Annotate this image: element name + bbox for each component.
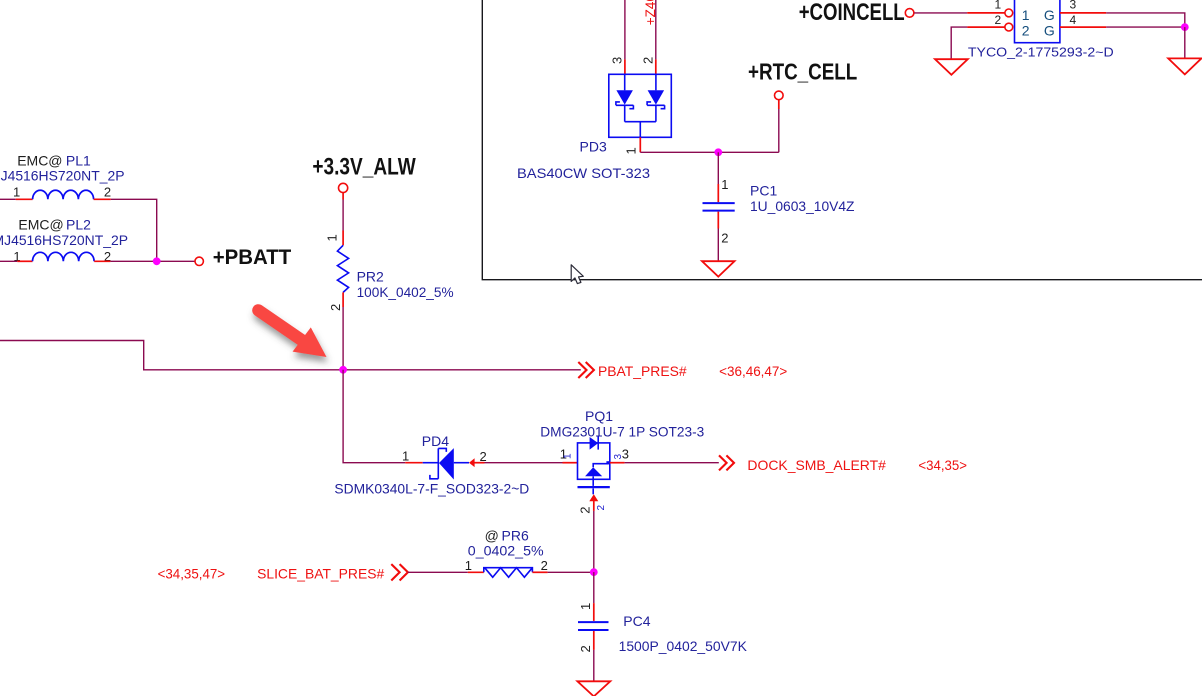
ground symbol below PC1 [702, 261, 735, 276]
svg-text:<36,46,47>: <36,46,47> [719, 363, 787, 379]
svg-text:2: 2 [721, 230, 728, 245]
wire PD3 to RTC node [640, 151, 779, 153]
power terminal +PBATT circle [195, 257, 203, 265]
svg-text:MJ4516HS720NT_2P: MJ4516HS720NT_2P [0, 232, 128, 248]
pin stub PL1.2 [94, 198, 111, 200]
wire PD3 pin 3 top [624, 0, 626, 59]
pin stub PR2.2 [342, 292, 344, 307]
junction node right [1181, 23, 1189, 31]
svg-text:2: 2 [541, 558, 548, 573]
ground symbol right [1168, 58, 1201, 74]
svg-text:PC1: PC1 [750, 182, 777, 198]
svg-text:PL2: PL2 [66, 216, 91, 232]
wire pin2 to ground [951, 27, 967, 59]
off-page connector SLICE_BAT_PRES# chevron [391, 564, 408, 580]
pin stub PC1.2 [717, 212, 719, 229]
svg-text:2: 2 [596, 505, 607, 511]
pin stub PC4.1 [593, 603, 595, 621]
inductor PL1 coil [33, 190, 94, 199]
svg-text:1U_0603_10V4Z: 1U_0603_10V4Z [750, 198, 855, 214]
svg-text:PR2: PR2 [357, 268, 384, 284]
pin stub J.2 [967, 26, 1004, 28]
wire junction down to PC1 [717, 152, 719, 184]
pin stub J.1 [967, 12, 1004, 14]
junction node PL1/PL2 [153, 257, 161, 265]
pin stub PL1.1 [16, 198, 33, 200]
transistor PQ1 pin 2 (symbol) [596, 505, 607, 511]
pin stub PQ1.1 [563, 462, 578, 464]
ground symbol below PC4 [577, 681, 610, 696]
net label +Z40 (rotated, clipped) [643, 0, 658, 25]
wire PBAT node down to PD4 row [343, 370, 405, 463]
svg-text:2: 2 [578, 507, 593, 514]
wire PQ1.2 down to SLICE node [593, 511, 595, 572]
svg-text:1: 1 [1022, 7, 1030, 23]
mouse cursor [571, 265, 583, 284]
wire PBAT net from left with step [0, 341, 581, 370]
svg-text:PBAT_PRES#: PBAT_PRES# [598, 363, 687, 379]
svg-text:1: 1 [995, 0, 1002, 12]
transistor PQ1 pin 3 (symbol) [613, 454, 624, 460]
svg-text:EMC@: EMC@ [17, 152, 62, 168]
wire pin4 to right [1106, 26, 1185, 28]
capacitor PC1 plates [703, 202, 735, 204]
svg-text:3: 3 [1070, 0, 1077, 12]
resistor PR6 zigzag [484, 568, 533, 578]
svg-text:1: 1 [562, 453, 573, 459]
terminal stub [778, 100, 780, 109]
terminal stub [342, 192, 344, 199]
svg-text:TYCO_2-1775293-2~D: TYCO_2-1775293-2~D [968, 44, 1114, 59]
pin stub PD3.1 [639, 137, 641, 152]
wire SLICE to PR6 [408, 571, 468, 573]
transistor PQ1 pin 1 (symbol) [562, 453, 573, 459]
svg-text:PR6: PR6 [502, 527, 529, 543]
power terminal +COINCELL circle [905, 9, 914, 18]
svg-text:PL1: PL1 [66, 152, 91, 168]
svg-text:1: 1 [13, 185, 20, 200]
svg-text:BAS40CW SOT-323: BAS40CW SOT-323 [517, 165, 650, 181]
svg-text:2: 2 [995, 13, 1002, 27]
svg-text:+RTC_CELL: +RTC_CELL [748, 58, 857, 84]
connector J body TYCO [1015, 0, 1060, 43]
connector pin 2 circle [1005, 23, 1013, 31]
pin stub PR2.1 [342, 231, 344, 246]
svg-text:2: 2 [104, 185, 111, 200]
diode PD3 pin 1 [624, 147, 639, 154]
junction node SLICE_BAT_PRES [590, 568, 598, 576]
svg-text:MJ4516HS720NT_2P: MJ4516HS720NT_2P [0, 168, 125, 184]
capacitor PC4 plates [578, 621, 609, 623]
diode PD3 body (dual schottky BAS40CW) [609, 74, 672, 137]
wire PL1.2 to corner down to PBATT node [111, 199, 157, 261]
wire junction down to PC4 [593, 572, 595, 603]
svg-text:2: 2 [1022, 23, 1030, 39]
power terminal +RTC_CELL circle [775, 91, 784, 100]
svg-text:3: 3 [613, 454, 624, 460]
pin stub PQ1.2 with arrowhead [589, 494, 598, 501]
pin stub PR6.1 [468, 571, 484, 573]
wire terminal down [778, 109, 780, 152]
wire PD4 to PQ1 [485, 462, 563, 464]
off-page connector PBAT_PRES# chevron [578, 362, 594, 378]
svg-text:2: 2 [578, 645, 593, 652]
resistor PR2 pin 2 [328, 304, 343, 311]
svg-text:+COINCELL: +COINCELL [799, 0, 905, 26]
capacitor PC4 pin 2 [578, 645, 593, 652]
wire PC4 to ground [593, 650, 595, 681]
svg-text:PD4: PD4 [422, 433, 449, 449]
wire PR2 to PBAT_PRES node [342, 307, 344, 370]
diode PD4 (schottky, cathode left) [423, 448, 469, 479]
wire PD3 pin 2 top [655, 0, 657, 59]
svg-text:100K_0402_5%: 100K_0402_5% [357, 284, 454, 300]
transistor PQ1 symbol body [578, 437, 610, 495]
pin stub J.4 [1060, 26, 1106, 28]
pin stub PL2.2 [94, 260, 110, 262]
svg-text:EMC@: EMC@ [18, 216, 63, 232]
annotation red arrow [258, 310, 326, 357]
svg-text:G: G [1044, 23, 1055, 39]
pin stub PC4.2 [593, 631, 595, 650]
ground symbol left of connector [935, 59, 968, 75]
connector pin 1 circle [1005, 9, 1013, 17]
pin stub J.3 [1060, 12, 1106, 14]
junction node RTC_CELL [714, 148, 722, 156]
wire PL2.2 to +PBATT terminal [110, 260, 194, 262]
transistor PQ1 pin 2 [578, 507, 593, 514]
svg-text:2: 2 [328, 304, 343, 311]
svg-text:+3.3V_ALW: +3.3V_ALW [312, 153, 416, 180]
svg-text:1: 1 [402, 449, 409, 464]
pin stub PD3.3 [624, 59, 626, 74]
svg-text:G: G [1044, 7, 1055, 23]
wire terminal to connector pin 1 [914, 12, 967, 14]
svg-text:1: 1 [721, 177, 728, 192]
svg-text:+PBATT: +PBATT [213, 245, 292, 269]
resistor PR2 pin 1 [325, 234, 340, 241]
block boundary box [482, 0, 1202, 280]
svg-text:SLICE_BAT_PRES#: SLICE_BAT_PRES# [257, 565, 384, 581]
svg-text:DOCK_SMB_ALERT#: DOCK_SMB_ALERT# [747, 457, 886, 473]
pin stub PD4.2 with arrowhead [469, 458, 475, 467]
wire PC1 to ground [717, 229, 719, 262]
pin stub PC1.1 [717, 184, 719, 202]
pin stub PL2.1 [17, 260, 32, 262]
diode PD3 pin 2 [640, 57, 655, 64]
svg-text:SDMK0340L-7-F_SOD323-2~D: SDMK0340L-7-F_SOD323-2~D [334, 481, 529, 497]
svg-text:DMG2301U-7 1P SOT23-3: DMG2301U-7 1P SOT23-3 [540, 424, 704, 440]
resistor PR2 zigzag [337, 245, 348, 292]
svg-text:3: 3 [610, 57, 625, 64]
junction node PBAT_PRES [339, 366, 347, 374]
svg-text:2: 2 [640, 57, 655, 64]
svg-text:1500P_0402_50V7K: 1500P_0402_50V7K [619, 638, 748, 654]
svg-text:1: 1 [578, 603, 593, 610]
pin stub PD4.1 [405, 462, 423, 464]
wire into PL1 pin 1 [0, 198, 16, 200]
svg-text:PC4: PC4 [623, 613, 650, 629]
power terminal +3.3V_ALW circle [339, 183, 348, 192]
svg-text:PQ1: PQ1 [585, 408, 613, 424]
svg-text:0_0402_5%: 0_0402_5% [468, 542, 544, 558]
wire pin3 to right corner [1106, 13, 1185, 27]
wire terminal to PR2 [342, 200, 344, 231]
svg-text:1: 1 [325, 234, 340, 241]
svg-text:1: 1 [465, 558, 472, 573]
diode PD3 pin 3 [610, 57, 625, 64]
wire PR6 to junction [548, 571, 594, 573]
svg-text:@: @ [485, 527, 499, 543]
svg-text:<34,35>: <34,35> [918, 457, 967, 473]
svg-text:4: 4 [1070, 13, 1077, 27]
inductor PL2 coil [33, 252, 95, 261]
wire down to right ground [1184, 27, 1186, 58]
off-page connector DOCK_SMB_ALERT# chevron [719, 455, 734, 470]
pin stub PQ1.3 [610, 462, 625, 464]
svg-text:2: 2 [480, 449, 487, 464]
svg-text:1: 1 [624, 147, 639, 154]
wire PQ1 to DOCK_SMB_ALERT# [625, 462, 719, 464]
wire into PL2 pin 1 [0, 260, 17, 262]
svg-text:PD3: PD3 [580, 139, 607, 155]
svg-text:<34,35,47>: <34,35,47> [158, 565, 226, 581]
capacitor PC4 pin 1 [578, 603, 593, 610]
svg-text:+Z40: +Z40 [643, 0, 658, 25]
pin stub PR6.2 [532, 571, 547, 573]
pin stub PD3.2 [655, 59, 657, 74]
